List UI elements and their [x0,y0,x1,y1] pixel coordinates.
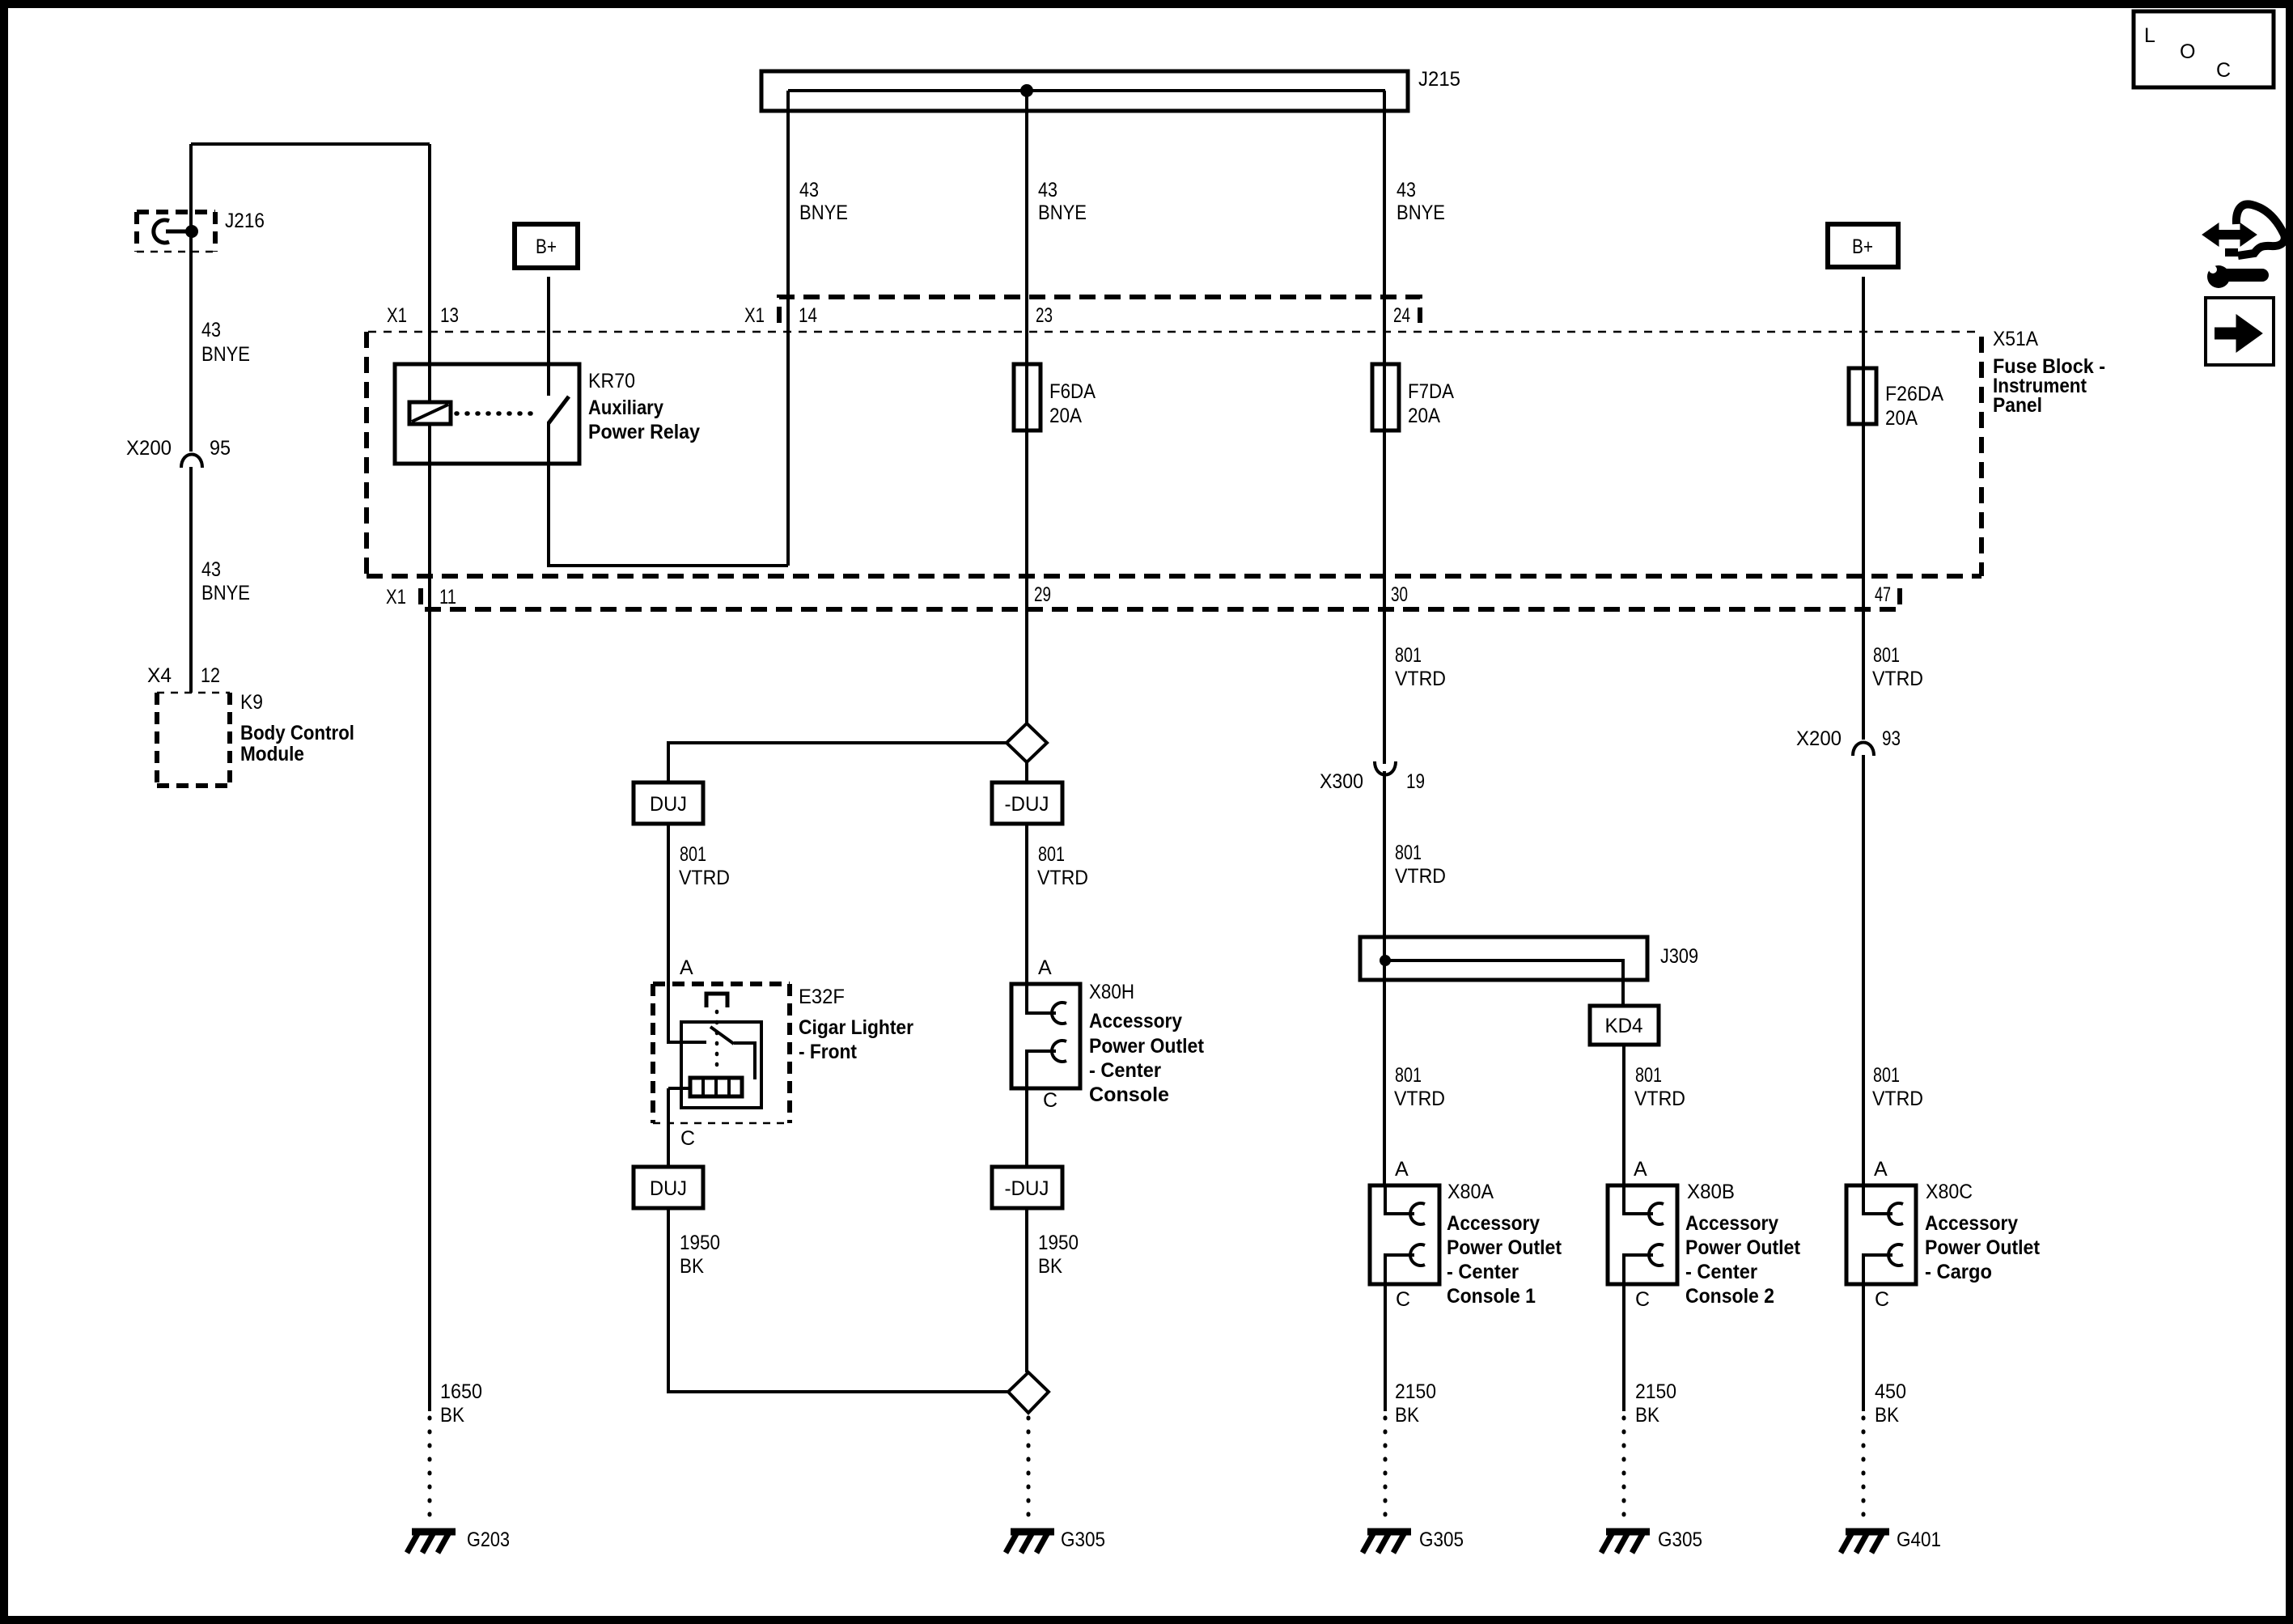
splice pack J215 [761,71,1408,111]
E32F feed wire into housing [668,1041,706,1044]
svg-text:X80B: X80B [1687,1181,1735,1203]
dotted wire to G401 (X80C) [1862,1418,1866,1526]
svg-text:Accessory: Accessory [1925,1212,2018,1235]
wire: branch left from diamond to DUJ [668,743,1008,782]
svg-text:A: A [680,956,693,979]
module K9 Body Control Module (dashed box) [157,693,230,786]
svg-text:G305: G305 [1658,1529,1702,1551]
svg-text:X1: X1 [744,304,765,327]
ground G305 (X80A) [1363,1532,1411,1553]
wire: B+ right down to X80C [1862,277,1865,740]
wire: J215 right leg to F7DA [1383,91,1386,764]
svg-text:Power Outlet: Power Outlet [1925,1236,2041,1259]
connector KD4 [1590,1006,1659,1045]
svg-text:-DUJ: -DUJ [1005,793,1049,816]
svg-text:BNYE: BNYE [1397,201,1445,224]
svg-text:801: 801 [1873,1064,1900,1087]
dotted wire to G305 (X80A) [1384,1418,1388,1526]
svg-text:2150: 2150 [1395,1380,1436,1403]
svg-text:J216: J216 [225,210,265,232]
svg-text:A: A [1038,956,1052,979]
svg-text:801: 801 [1635,1064,1662,1087]
svg-text:C: C [1396,1288,1410,1311]
wire: DUJ lower to ground run [668,1208,1010,1392]
E32F heater element [690,1078,742,1096]
dotted wire to G203 [428,1418,432,1526]
wire: coil output down [428,424,431,1411]
svg-text:23: 23 [1036,304,1053,327]
wire: B+ to relay switch [547,277,550,396]
ground G401 [1841,1532,1889,1553]
outlet X80A connector box [1370,1185,1439,1284]
svg-text:43: 43 [1038,179,1057,201]
svg-text:Accessory: Accessory [1685,1212,1778,1235]
svg-text:X51A: X51A [1993,328,2038,350]
svg-text:43: 43 [201,319,221,341]
svg-text:KD4: KD4 [1605,1015,1643,1037]
svg-text:G401: G401 [1897,1529,1941,1551]
svg-text:Accessory: Accessory [1447,1212,1540,1235]
svg-text:- Front: - Front [799,1041,858,1063]
connector DUJ (upper) [634,782,703,824]
svg-text:VTRD: VTRD [1395,668,1446,690]
svg-text:- Center: - Center [1089,1059,1161,1082]
splice J216 (dashed box) [137,212,215,252]
relay KR70 Auxiliary Power Relay [395,364,579,464]
connector -DUJ (lower) [992,1167,1062,1208]
svg-text:DUJ: DUJ [650,1177,687,1200]
dotted wire to G305 (X80B) [1622,1418,1626,1526]
harness routing icon [2202,204,2285,288]
connector row X1 lower (pins 11/29/30/47) [421,584,1900,609]
E32F switch blade [710,1027,734,1044]
splice S diamond (upper) [1007,723,1047,762]
svg-text:43: 43 [799,179,819,201]
svg-text:Console 1: Console 1 [1447,1285,1536,1308]
svg-text:C: C [1875,1288,1889,1311]
wire: -DUJ to X80H [1025,824,1028,1013]
forward arrow icon box [2206,298,2274,365]
svg-text:13: 13 [440,304,459,327]
svg-text:Power Outlet: Power Outlet [1685,1236,1801,1259]
svg-text:29: 29 [1034,583,1051,606]
wire: KD4 to X80B [1622,1045,1625,1185]
svg-text:801: 801 [1873,644,1900,667]
svg-text:F7DA: F7DA [1408,380,1454,403]
E32F element output left lead [668,1087,690,1090]
wire: left vertical to J216 and BCM [189,144,193,452]
svg-text:A: A [1395,1158,1409,1181]
svg-text:801: 801 [1395,644,1422,667]
svg-text:X200: X200 [1796,727,1842,750]
svg-text:BNYE: BNYE [799,201,848,224]
svg-text:-DUJ: -DUJ [1005,1177,1049,1200]
svg-text:95: 95 [210,437,231,460]
splice S diamond (lower) [1008,1372,1049,1413]
svg-text:Power Relay: Power Relay [588,421,700,443]
svg-text:11: 11 [439,586,456,608]
svg-text:BK: BK [440,1404,464,1427]
svg-text:X80A: X80A [1447,1181,1494,1203]
wire: -DUJ lower to diamond [1025,1208,1028,1372]
connector -DUJ (upper) [992,782,1062,824]
svg-text:19: 19 [1406,770,1425,793]
svg-text:801: 801 [1038,843,1065,866]
svg-text:- Center: - Center [1685,1261,1757,1283]
svg-text:20A: 20A [1885,407,1918,430]
svg-text:BNYE: BNYE [201,343,250,366]
J216 internal clip contact [154,220,169,243]
svg-text:BK: BK [680,1255,704,1278]
svg-text:Console 2: Console 2 [1685,1285,1774,1308]
svg-text:F26DA: F26DA [1885,383,1943,405]
svg-text:DUJ: DUJ [650,793,687,816]
E32F dotted plunger [715,1011,719,1075]
svg-text:BNYE: BNYE [1038,201,1087,224]
svg-text:B+: B+ [536,235,557,258]
wire: J215 left leg (X1 pin 14) [786,91,790,566]
ground G305 (X80B) [1601,1532,1650,1553]
svg-text:Power Outlet: Power Outlet [1089,1035,1205,1058]
svg-text:- Cargo: - Cargo [1925,1261,1992,1283]
LOC legend box [2134,11,2274,87]
wire: E32F output down [667,1088,670,1167]
svg-text:Body Control: Body Control [240,722,354,744]
svg-text:VTRD: VTRD [679,867,730,889]
svg-text:VTRD: VTRD [1395,865,1446,888]
svg-text:801: 801 [1395,842,1422,864]
svg-text:BNYE: BNYE [201,582,250,604]
svg-text:801: 801 [680,843,706,866]
outlet X80H connector box [1011,984,1080,1088]
svg-text:Auxiliary: Auxiliary [588,396,663,419]
svg-text:20A: 20A [1049,405,1082,427]
svg-text:93: 93 [1882,727,1901,750]
connector DUJ (lower) [634,1167,703,1208]
power feed B+ (left) [515,224,578,268]
wire: DUJ to E32F [667,824,670,1044]
svg-text:C: C [1635,1288,1650,1311]
relay switch blade [549,396,569,423]
svg-text:VTRD: VTRD [1634,1088,1685,1110]
svg-text:X4: X4 [147,664,172,687]
svg-text:30: 30 [1391,583,1408,606]
svg-text:E32F: E32F [799,986,845,1008]
svg-text:J215: J215 [1418,68,1460,91]
svg-text:1950: 1950 [680,1232,720,1254]
svg-text:VTRD: VTRD [1037,867,1088,889]
svg-text:1650: 1650 [440,1380,482,1403]
svg-text:Module: Module [240,743,304,765]
wire: BCM wire below X200 [189,467,193,693]
svg-text:Console: Console [1089,1083,1169,1106]
svg-text:43: 43 [1397,179,1416,201]
svg-text:K9: K9 [240,691,263,714]
outlet X80C connector box [1846,1185,1916,1284]
ground G203 [407,1532,456,1553]
svg-text:J309: J309 [1660,945,1698,968]
X80H lower contact [1027,1051,1056,1167]
wire: relay switch output [549,422,788,566]
E32F top staple [706,994,727,1007]
svg-text:X1: X1 [386,586,406,608]
wire: diamond down to -DUJ [1025,762,1028,782]
svg-text:X80H: X80H [1089,981,1134,1003]
svg-text:A: A [1874,1158,1888,1181]
svg-text:450: 450 [1875,1380,1906,1403]
svg-text:VTRD: VTRD [1394,1088,1445,1110]
svg-text:Power Outlet: Power Outlet [1447,1236,1562,1259]
relay dotted actuation link [456,411,539,416]
dotted wire to G305 (center) [1027,1418,1031,1526]
relay coil [409,402,451,424]
svg-text:2150: 2150 [1635,1380,1676,1403]
svg-text:47: 47 [1875,583,1891,606]
svg-text:O: O [2180,40,2195,63]
svg-text:VTRD: VTRD [1872,1088,1923,1110]
svg-text:20A: 20A [1408,405,1440,427]
svg-text:VTRD: VTRD [1872,668,1923,690]
wire: relay coil feed vertical (X1 pin 13) [428,144,431,402]
fuse F26DA 20A [1849,368,1876,424]
svg-text:X1: X1 [387,304,407,327]
svg-text:Cigar Lighter: Cigar Lighter [799,1016,913,1039]
fuse F6DA 20A [1014,364,1041,430]
svg-text:F6DA: F6DA [1049,380,1096,403]
svg-text:BK: BK [1875,1404,1899,1427]
svg-text:801: 801 [1395,1064,1422,1087]
svg-text:C: C [2216,59,2231,82]
outlet X80B connector box [1608,1185,1677,1284]
svg-text:12: 12 [201,664,220,687]
svg-text:G305: G305 [1061,1529,1105,1551]
svg-text:24: 24 [1393,304,1410,327]
junction dot on J216 [185,225,198,238]
fuse F7DA 20A [1372,364,1399,430]
svg-text:C: C [1043,1089,1057,1112]
cigar lighter E32F (dashed box) [653,984,790,1123]
X80H upper contact [1027,984,1056,1013]
E32F element connection right [734,1043,755,1079]
wire: J215 center leg to F6DA [1025,91,1028,723]
svg-text:BK: BK [1038,1255,1062,1278]
E32F inner housing [681,1022,761,1108]
svg-text:BK: BK [1635,1404,1659,1427]
svg-text:L: L [2144,24,2155,47]
svg-text:G305: G305 [1419,1529,1464,1551]
svg-text:X200: X200 [126,437,172,460]
svg-text:G203: G203 [467,1529,510,1551]
svg-text:X300: X300 [1320,770,1363,793]
ground G305 (center) [1006,1532,1054,1553]
svg-text:BK: BK [1395,1404,1419,1427]
svg-text:14: 14 [799,304,817,327]
power feed B+ (right) [1828,224,1898,267]
wire: top horizontal from BCM branch to relay coil branch [191,142,430,146]
wire: B+ right lower run [1862,755,1865,1185]
svg-text:- Center: - Center [1447,1261,1519,1283]
svg-text:C: C [680,1127,695,1150]
svg-text:1950: 1950 [1038,1232,1079,1254]
fuse block X51A boundary (dashed) [368,331,1980,333]
svg-text:Panel: Panel [1993,394,2042,417]
splice pack J309 [1360,937,1647,980]
svg-text:KR70: KR70 [588,370,635,392]
svg-text:X80C: X80C [1926,1181,1973,1203]
svg-text:Accessory: Accessory [1089,1010,1182,1032]
svg-text:B+: B+ [1852,235,1873,258]
svg-text:A: A [1634,1158,1647,1181]
svg-text:43: 43 [201,558,221,581]
